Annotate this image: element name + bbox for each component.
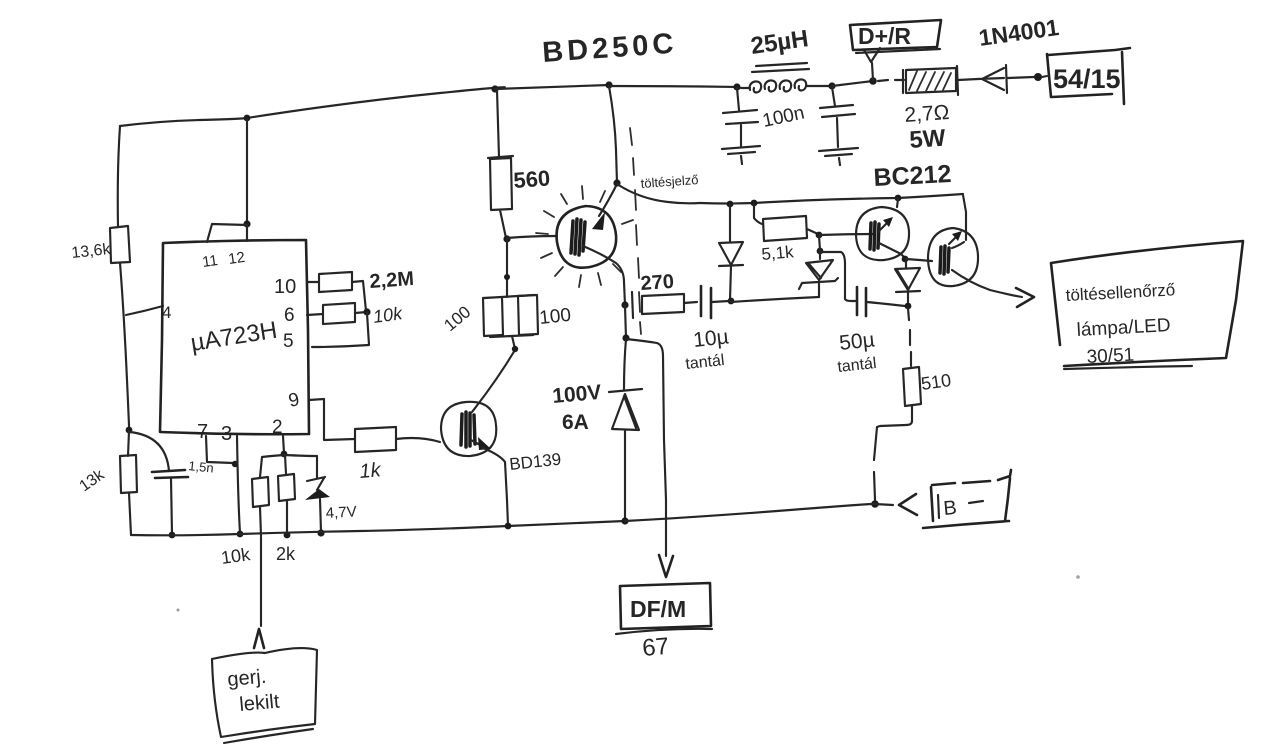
Q2 emitter arrow [471,440,482,446]
svg-text:gerj.: gerj. [227,666,268,691]
node mid [817,248,824,255]
inductor core bars [752,63,809,72]
op-amp regulator U1 uA723 box [160,240,309,434]
svg-text:10k: 10k [372,303,405,327]
svg-text:BC212: BC212 [873,160,952,192]
wire pin4 branch [126,306,163,315]
Q2 emitter wire [483,448,508,526]
wire main down [624,339,626,390]
node small [504,274,510,280]
node pin3 tee [232,461,238,467]
resistor R 1k [355,427,396,452]
capacitor C5 10u [701,286,711,318]
wire to BC212 rail [617,184,700,203]
zener diode Z1 4,7V [285,455,325,490]
node T2 collector [895,195,902,202]
svg-text:12: 12 [227,249,246,268]
svg-text:5W: 5W [909,125,947,154]
svg-text:67: 67 [641,633,670,662]
node junction left [126,427,133,434]
wire IC supply vertical [246,120,248,224]
svg-text:1k: 1k [359,459,383,483]
label box bottom double stroke [1064,366,1192,369]
diode D3 [719,205,743,300]
svg-text:6A: 6A [562,411,589,434]
Q2 junction bars [461,412,475,447]
node rail B- [871,500,879,508]
arrowhead left B- [899,494,917,515]
resistor R 270 [632,292,697,318]
wire R1k to Q2 base [396,438,440,442]
wire base Q1 [507,236,557,238]
wire to pin5 [312,313,369,347]
wire left vertical upper [118,126,120,227]
resistor R 100 left [483,295,534,336]
wire bottom rail right [625,504,893,521]
node pin2 [281,451,288,458]
resistor R 13,6k [110,226,130,263]
Q2 collector wire [472,350,515,412]
terminal box 54/15 [1047,48,1130,104]
wire 100-pair vertical [506,240,508,297]
wire left vertical middle [120,263,129,433]
wire rail to D+/R node [832,81,873,86]
svg-text:270: 270 [640,271,675,295]
resistor R 2,2M [319,272,352,292]
diode D1 1N4001 [978,65,1034,93]
resistor R 10k lower [252,455,284,536]
svg-text:lekilt: lekilt [239,691,281,716]
wire T2 to T3 [906,259,932,261]
terminal box DF/M [620,583,711,629]
node branch [622,334,629,341]
fusible resistor R 2,7ohm 5W [903,68,956,93]
inductor L1 25uH [741,79,832,92]
resistor R 2k [278,455,295,533]
wire R10k right [355,312,367,313]
svg-text:10k: 10k [220,544,253,568]
resistor R 510 with dashes [874,308,921,500]
T3 junction bars [940,246,949,274]
resistor R 10k feedback [323,303,355,324]
svg-text:B: B [943,497,958,520]
node rail pin3 [237,531,244,538]
wire bottom rail left [131,521,625,535]
wire collector drop [609,86,617,183]
Q1 emitter wire [583,246,625,305]
wire top-left horizontal [120,118,247,126]
wire pin7 loop [206,436,233,463]
node rail 2k [284,532,291,539]
ground symbol left [722,146,760,164]
node top C [605,81,612,88]
node 100n left [733,83,740,90]
svg-text:2,7Ω: 2,7Ω [904,101,950,127]
T3 arrow [949,234,959,244]
node rail main [621,517,628,524]
svg-text:2k: 2k [276,544,296,564]
wire 50u branch [820,252,856,301]
wire pin6 stub [307,314,323,315]
transistor T3 BC212 body [928,228,978,286]
node lower left [728,298,735,305]
wire Y connector [864,48,880,80]
wire indicator arrow [952,270,1022,297]
speck 1 [177,609,180,612]
resistor R 13k [120,431,137,535]
node T2 emitter [902,256,909,263]
arrowhead right [1016,288,1034,307]
terminal box B- [923,470,1011,528]
capacitor C3 100n right [820,87,855,147]
resistor R 5,1k [754,204,818,241]
transistor T2 BC212 body [856,207,909,260]
wire BC212 top rail [700,194,963,204]
arrowhead up gerj [254,629,264,648]
diode D4 [895,259,920,305]
wire base T2 [819,234,874,235]
label box charge indicator [1051,241,1243,366]
node rail mid [505,523,512,530]
U1 top bump pins 11 12 [207,224,247,242]
diode D2 100V 6A [609,389,642,521]
node zener top [816,232,823,239]
resistor R 100 right [490,295,538,349]
node D+/R [869,77,877,85]
speck 2 [1076,575,1080,579]
svg-text:10: 10 [274,276,296,298]
zener diode Z2 [799,252,838,297]
svg-text:30/51: 30/51 [1086,345,1135,368]
wire top rail right [609,86,737,87]
svg-text:4,7V: 4,7V [325,503,357,522]
svg-text:50µ: 50µ [838,328,876,355]
svg-text:3: 3 [221,423,232,445]
svg-text:1,5n: 1,5n [188,458,215,476]
svg-text:510: 510 [920,370,953,394]
wire pin3 down [237,436,240,533]
svg-text:2,2M: 2,2M [369,268,415,293]
svg-text:DF/M: DF/M [630,596,686,622]
wire arrow branch to DF/M [626,339,666,556]
T3 collector wire [952,195,966,248]
wire to battery box [1042,76,1047,77]
T2 collector stub [897,199,898,207]
node rail zener [317,529,324,536]
svg-text:5,1k: 5,1k [761,242,795,264]
svg-text:10µ: 10µ [692,325,730,352]
arrowhead down [659,555,673,577]
node 510 top [905,303,912,310]
node diode A top [727,201,734,208]
svg-text:2: 2 [272,417,283,438]
wire gerj down [260,537,262,626]
terminal box D+/R [850,20,941,50]
wire dashed to fuse resistor [878,80,904,81]
gerj box bottom double stroke [224,729,313,743]
node base Q1 [503,235,510,242]
wire pin9 to R1k [309,399,355,440]
T2 junction bars [870,222,879,250]
node top A [244,115,251,122]
wire arc to capacitor 1,5n [130,432,169,471]
node 5,1k top [751,200,758,207]
wire 560 top [497,90,499,157]
svg-text:6: 6 [284,305,295,326]
wire pin10 stub [307,281,319,283]
T2 emitter wire [879,243,905,258]
svg-text:54/15: 54/15 [1053,64,1121,94]
svg-text:560: 560 [513,165,551,193]
node emitter out [621,301,628,308]
capacitor C2 100n left [723,88,758,146]
node feedback [363,308,370,315]
wire top rail rising [247,87,505,118]
wire pin2 down [283,436,284,453]
T2 arrow [878,221,889,232]
transistor Q2 BD139 body [441,402,496,456]
Q1 collector arrow [599,184,617,216]
terminal box gerj lekilt [212,648,317,737]
wire top rail to C [495,85,609,89]
node rail cap [169,532,176,539]
svg-text:D+/R: D+/R [858,23,911,49]
svg-text:100: 100 [538,305,572,329]
wire emitter down [625,306,626,338]
capacitor C4 50u [857,287,866,316]
wire lower net [731,297,819,302]
node output [1034,73,1042,81]
node 100n right [828,82,835,89]
Q1 junction bars [571,219,585,255]
capacitor C 1,5n [152,470,188,478]
node Q1 collector [613,179,620,186]
node 100-pair bottom [512,346,518,352]
terminal label B- [938,495,939,518]
resistor R 560 [488,156,513,238]
svg-text:11: 11 [201,252,219,271]
svg-text:100V: 100V [551,381,602,408]
node top B [491,85,498,92]
ground symbol right [819,148,858,165]
dashed separator line [630,128,641,334]
Q1 rays [536,186,633,287]
node IC supply [243,220,250,227]
transistor Q1 BD250C body [557,206,617,268]
wire R2,2M right [352,281,366,311]
svg-text:5: 5 [283,331,294,352]
